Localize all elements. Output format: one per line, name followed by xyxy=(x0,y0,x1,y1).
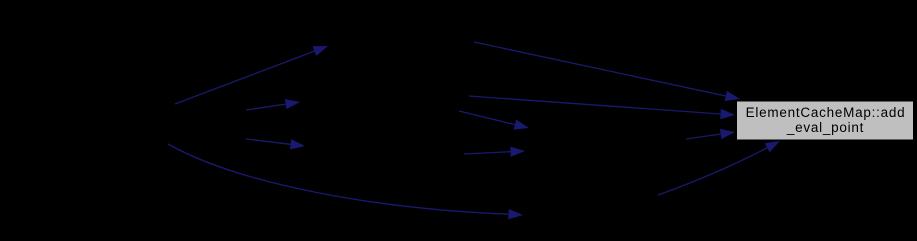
edge node3 to ElementCacheMap::add_eval_point xyxy=(686,134,721,139)
node label text: ElementCacheMap::add_eval_point xyxy=(737,106,914,135)
edge node2c to node3 xyxy=(464,152,511,154)
arrowhead node2a to add_eval_point xyxy=(725,91,740,101)
arrowhead node2c to node3 xyxy=(510,147,525,157)
arrowhead edge caller1 to node2a xyxy=(313,46,328,56)
edge node2b to ElementCacheMap::add_eval_point xyxy=(469,96,721,114)
edge node2a to ElementCacheMap::add_eval_point xyxy=(474,42,726,96)
arrowhead node2b to node3 xyxy=(514,120,529,130)
edge caller2 to node2c xyxy=(246,139,291,144)
edge node2b to node3 xyxy=(459,111,515,125)
arrowhead node4 to add_eval_point xyxy=(765,141,780,152)
arrowhead long curve to node4 xyxy=(508,209,523,219)
edge caller1 to node2b xyxy=(246,104,286,110)
arrowhead edge caller1 to node2b xyxy=(285,99,300,109)
arrowhead node2b to add_eval_point xyxy=(720,109,735,119)
edge node4 to ElementCacheMap::add_eval_point xyxy=(658,148,767,195)
arrowhead node3 to add_eval_point xyxy=(720,129,735,139)
node ElementCacheMap::add_eval_point (highlighted) xyxy=(737,101,914,140)
edge caller2 to node4 (long curve) xyxy=(168,144,509,214)
edge caller1 to node2a xyxy=(175,51,314,104)
arrowhead edge caller2 to node2c xyxy=(290,139,305,149)
